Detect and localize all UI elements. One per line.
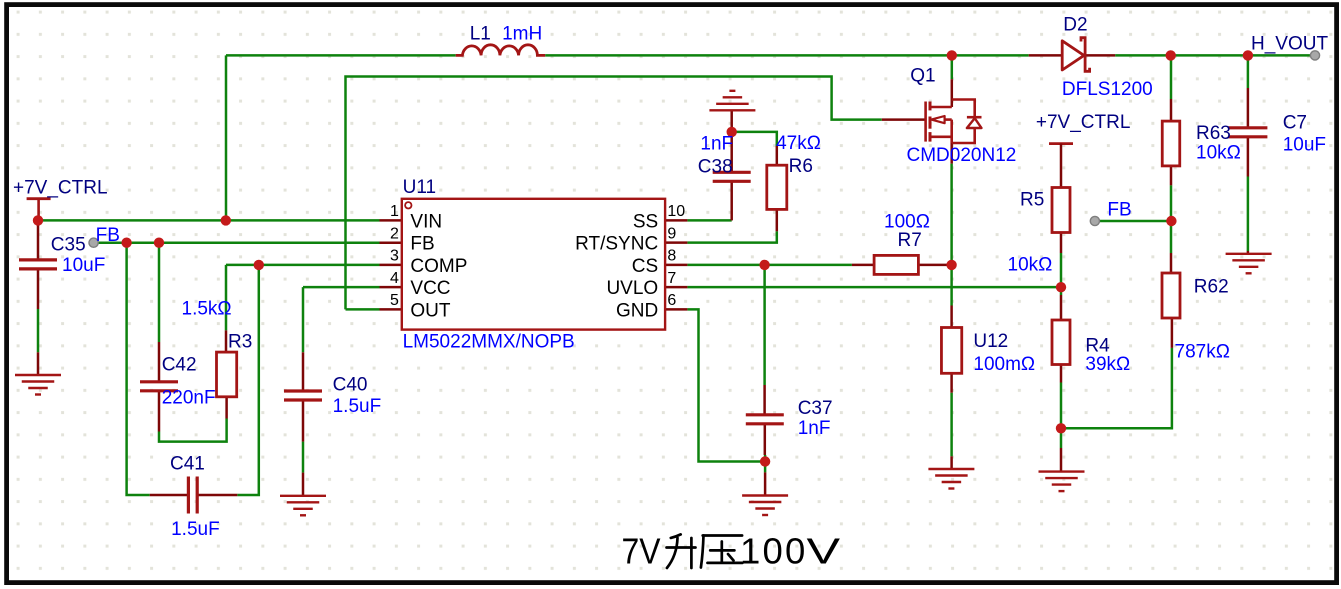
resistor U12 bottom lead (950, 373, 953, 392)
svg-text:2: 2 (390, 225, 399, 242)
wire C40 bottom to ground (302, 442, 305, 473)
resistor U12 body (941, 328, 961, 374)
wire C37 bottom node to ground (764, 455, 767, 472)
capacitor C37 top lead (763, 385, 766, 415)
svg-text:+7V_CTRL: +7V_CTRL (1036, 112, 1131, 133)
wire OUT pin 5 stub wire (346, 308, 380, 311)
svg-text:C38: C38 (698, 156, 733, 177)
capacitor C38 bottom lead (730, 181, 733, 220)
wire VIN net horizontal (38, 219, 380, 222)
wire RT/SYNC net (pin 9) to R6 bottom (687, 231, 776, 242)
transistor Q1 source lead (950, 143, 953, 164)
svg-text:UVLO: UVLO (606, 278, 658, 299)
wire COMP net horizontal (pin 3) (226, 264, 380, 267)
resistor R5 bottom lead (1060, 233, 1063, 254)
svg-text:100mΩ: 100mΩ (973, 354, 1035, 375)
capacitor C38 top lead (730, 132, 733, 172)
diode D2 cathode lead (1085, 54, 1115, 57)
diode D2 triangle and schottky bar (1062, 38, 1089, 72)
net terminal dot H_VOUT (1310, 51, 1319, 60)
resistor R6 bottom lead (776, 209, 779, 231)
op-amp U11 controller body LM5022 (402, 199, 665, 330)
node junction VIN / top-rail riser (221, 215, 231, 225)
power port +7V_CTRL left bar (27, 197, 51, 200)
ground stub below C37 (764, 472, 767, 495)
node junction GND route / C37 bottom (760, 456, 770, 466)
net label terminal dot FB right (1090, 216, 1099, 225)
wire R4 ground node to R62 bottom (1061, 348, 1172, 428)
node junction CS / C37 (759, 260, 769, 270)
svg-text:47kΩ: 47kΩ (776, 133, 821, 154)
svg-text:39kΩ: 39kΩ (1085, 354, 1130, 375)
pin 6 stub (GND) (665, 308, 687, 311)
resistor R63 body (1162, 121, 1180, 166)
resistor R3 bottom lead (225, 397, 228, 419)
inverted ground above C38 (709, 91, 755, 111)
svg-text:VCC: VCC (410, 278, 450, 299)
node junction FB / C42 (154, 238, 164, 248)
ground stub below C40 (302, 473, 305, 496)
ground below C35 (15, 375, 61, 395)
svg-text:10: 10 (667, 203, 685, 220)
svg-text:R62: R62 (1194, 276, 1229, 297)
wire UVLO net (pin 7) horizontal (687, 286, 1061, 289)
pin 3 stub (COMP) (380, 264, 402, 267)
ground below R4 (1039, 472, 1085, 492)
capacitor C38 plates (713, 172, 751, 181)
svg-text:1nF: 1nF (700, 134, 733, 155)
svg-text:CMD020N12: CMD020N12 (907, 145, 1017, 166)
pin 1 stub (VIN) (380, 219, 402, 222)
svg-text:C40: C40 (333, 374, 368, 395)
svg-text:FB: FB (96, 225, 120, 246)
wire top rail down to C7 (1247, 55, 1250, 88)
svg-text:7: 7 (667, 270, 676, 287)
wire FB down to C41 left (127, 243, 150, 495)
wire FB net label to R63/R62 node (1098, 220, 1171, 223)
capacitor C42 bottom lead (158, 391, 161, 432)
wire top rail down to R63 top (1170, 55, 1173, 99)
power port +7V_CTRL right bar (1049, 142, 1073, 145)
svg-text:787kΩ: 787kΩ (1175, 342, 1230, 363)
wire COMP down to R3 top (225, 265, 228, 331)
ground below C40 (280, 496, 326, 516)
wire C7 bottom to ground (1247, 177, 1250, 252)
resistor R63 bottom lead (1170, 166, 1173, 185)
ground below C37 (742, 496, 788, 516)
node junction R4 bottom / R62 bottom / ground (1056, 423, 1066, 433)
svg-text:1: 1 (390, 203, 399, 220)
wire CS node down to C37 top (763, 265, 766, 385)
capacitor C37 bottom lead (764, 423, 767, 455)
svg-text:L1: L1 (470, 24, 491, 45)
wire FB down to C42 top (158, 243, 161, 342)
svg-text:3: 3 (390, 248, 399, 265)
wire GND net (pin 6) routing (687, 309, 765, 461)
pin 8 stub (CS) (665, 264, 687, 267)
svg-text:R7: R7 (898, 230, 922, 251)
title text V of 100V (807, 531, 841, 572)
wire R4 bottom to ground node (1060, 383, 1063, 429)
title CJK glyph ya (pressure) (701, 536, 743, 568)
svg-text:R5: R5 (1020, 190, 1044, 211)
svg-text:CS: CS (632, 256, 658, 277)
svg-text:10uF: 10uF (1283, 135, 1326, 156)
resistor R6 body (767, 165, 787, 209)
wire top rail: D2 cathode to H_VOUT (1115, 54, 1315, 57)
svg-text:10kΩ: 10kΩ (1196, 143, 1241, 164)
svg-text:U11: U11 (403, 177, 436, 198)
wire top rail to Q1 drain (951, 55, 954, 79)
ground stub below C7 (1247, 251, 1250, 254)
wire FB net horizontal (pin 2) (97, 241, 380, 244)
svg-text:C35: C35 (51, 235, 86, 256)
wire top rail: riser top to L1 left (226, 54, 456, 57)
resistor R62 body (1162, 273, 1180, 318)
svg-text:H_VOUT: H_VOUT (1251, 33, 1328, 54)
svg-text:8: 8 (667, 248, 676, 265)
svg-text:COMP: COMP (410, 256, 467, 277)
resistor R62 bottom lead (1171, 318, 1174, 348)
resistor R3 top lead (225, 330, 228, 352)
ground stub below R4 (1060, 448, 1063, 472)
svg-text:Q1: Q1 (910, 65, 935, 86)
transistor Q1 drain lead (951, 79, 954, 107)
resistor R7 left lead (852, 264, 874, 267)
ground stub below U12 (950, 456, 953, 469)
resistor R4 bottom lead (1060, 365, 1063, 383)
wire VCC down to C40 top (302, 287, 305, 352)
svg-text:10uF: 10uF (62, 255, 105, 276)
svg-text:LM5022MMX/NOPB: LM5022MMX/NOPB (403, 331, 575, 352)
pin 10 stub (SS) (665, 219, 687, 222)
ground below C7 (1226, 254, 1272, 273)
title CJK glyph sheng (rise) (667, 534, 696, 568)
svg-text:FB: FB (410, 234, 434, 255)
wire SS net (pin 10) to C38 (687, 219, 731, 222)
node junction +7V_CTRL / VIN / C35 (33, 215, 43, 225)
svg-text:U12: U12 (973, 331, 1008, 352)
wire C42 bottom to R3 bottom (159, 419, 227, 442)
capacitor C41 left lead (150, 494, 189, 497)
capacitor C42 top lead (158, 342, 161, 382)
wire R7 right down to U12 top (950, 265, 953, 306)
transistor Q1 gate lead (882, 118, 926, 121)
capacitor C7 plates (1228, 128, 1267, 137)
svg-text:R3: R3 (228, 332, 252, 353)
svg-text:V: V (807, 531, 841, 572)
capacitor C41 right lead (197, 494, 237, 497)
svg-text:C37: C37 (798, 398, 833, 419)
resistor R3 body (217, 352, 237, 397)
node junction FB / C41 left (121, 238, 131, 248)
svg-text:C42: C42 (162, 354, 197, 375)
svg-text:5: 5 (390, 292, 399, 309)
svg-text:+7V_CTRL: +7V_CTRL (13, 178, 108, 199)
wire VCC net horizontal (pin 4) (303, 286, 380, 289)
resistor R6 top lead (776, 146, 779, 165)
node junction COMP / C41 right (254, 260, 264, 270)
wire R7 right up to Q1 source (950, 164, 953, 265)
node junction UVLO / R5 / R4 (1056, 282, 1066, 292)
resistor R4 body (1052, 320, 1070, 365)
resistor R63 top lead (1170, 99, 1173, 121)
diode D2 anode lead (1029, 54, 1063, 57)
ground stub below C35 (37, 352, 40, 375)
capacitor C40 plates (284, 391, 322, 400)
svg-text:GND: GND (616, 300, 658, 321)
svg-text:7V: 7V (622, 531, 662, 572)
resistor R5 body (1052, 188, 1070, 233)
wire OUT net to Q1 gate (346, 77, 882, 310)
resistor R7 right lead (918, 264, 951, 267)
capacitor C37 plates (746, 415, 784, 424)
wire CS net (pin 8) to R7 left (687, 264, 852, 267)
svg-text:10kΩ: 10kΩ (1008, 255, 1053, 276)
svg-text:RT/SYNC: RT/SYNC (575, 234, 658, 255)
node junction top rail / R63 (1166, 50, 1176, 60)
svg-text:C7: C7 (1283, 112, 1307, 133)
capacitor C35 bottom lead (37, 269, 40, 309)
svg-text:VIN: VIN (410, 211, 442, 232)
wire U12 bottom to ground (950, 393, 953, 457)
resistor R4 top lead (1060, 295, 1063, 320)
transistor Q1 N-MOSFET symbol (926, 100, 982, 144)
svg-text:1mH: 1mH (502, 24, 542, 45)
svg-text:R63: R63 (1196, 123, 1231, 144)
capacitor C40 bottom lead (302, 401, 305, 442)
svg-text:R6: R6 (789, 156, 813, 177)
capacitor C35 top lead (37, 220, 40, 260)
resistor R5 top lead (1060, 144, 1063, 187)
pin 9 stub (RT/SYNC) (665, 241, 687, 244)
node junction C38 / ground / R6 (727, 127, 737, 137)
pin 5 stub (OUT) (380, 308, 402, 311)
wire riser top rail to VIN node (225, 55, 228, 220)
svg-text:1nF: 1nF (798, 418, 831, 439)
svg-text:4: 4 (390, 270, 399, 287)
inverted ground stub above C38 (730, 110, 733, 132)
wire R63 bottom to R62 top (1170, 185, 1173, 253)
wire C38 top node to R6 top (732, 132, 777, 146)
wire R5 bottom to UVLO node (1060, 253, 1063, 287)
svg-text:1.5uF: 1.5uF (333, 396, 382, 417)
inductor L1 coil (456, 45, 546, 56)
wire C35 bottom to ground (37, 309, 40, 352)
svg-text:D2: D2 (1063, 15, 1087, 36)
node junction R7 / Q1 source / U12 (946, 260, 956, 270)
svg-text:FB: FB (1107, 199, 1131, 220)
svg-text:9: 9 (667, 225, 676, 242)
resistor U12 top lead (950, 306, 953, 328)
pin 2 stub (FB) (380, 241, 402, 244)
svg-text:220nF: 220nF (162, 388, 216, 409)
capacitor C40 top lead (302, 352, 305, 391)
pin 4 stub (VCC) (380, 286, 402, 289)
wire R4 ground node down (1060, 428, 1063, 448)
svg-text:DFLS1200: DFLS1200 (1062, 79, 1153, 100)
capacitor C41 plates (188, 477, 197, 514)
pin 7 stub (UVLO) (665, 286, 687, 289)
capacitor C7 bottom lead (1247, 137, 1250, 177)
svg-text:6: 6 (667, 292, 676, 309)
svg-text:SS: SS (633, 211, 658, 232)
capacitor C42 plates (140, 382, 178, 391)
power port +7V_CTRL left lead (37, 199, 40, 221)
svg-text:C41: C41 (170, 453, 205, 474)
node junction FB / R63 / R62 (1166, 216, 1176, 226)
wire UVLO node down toward R4 (1060, 287, 1063, 295)
resistor R62 top lead (1170, 253, 1173, 273)
wire C41 right up to COMP (237, 265, 258, 495)
svg-text:1.5uF: 1.5uF (171, 519, 220, 540)
node junction top rail / Q1 drain (947, 50, 957, 60)
resistor R7 body (874, 255, 918, 274)
svg-text:1.5kΩ: 1.5kΩ (182, 299, 232, 320)
node junction top rail / C7 (1243, 50, 1253, 60)
capacitor C7 top lead (1247, 88, 1250, 128)
svg-text:OUT: OUT (410, 300, 451, 321)
svg-text:100: 100 (740, 531, 808, 572)
capacitor C35 plates (19, 260, 57, 269)
wire top rail: L1 right to D2 anode (545, 54, 1028, 57)
ground below U12 (928, 469, 974, 489)
net label terminal dot FB left (89, 238, 98, 247)
